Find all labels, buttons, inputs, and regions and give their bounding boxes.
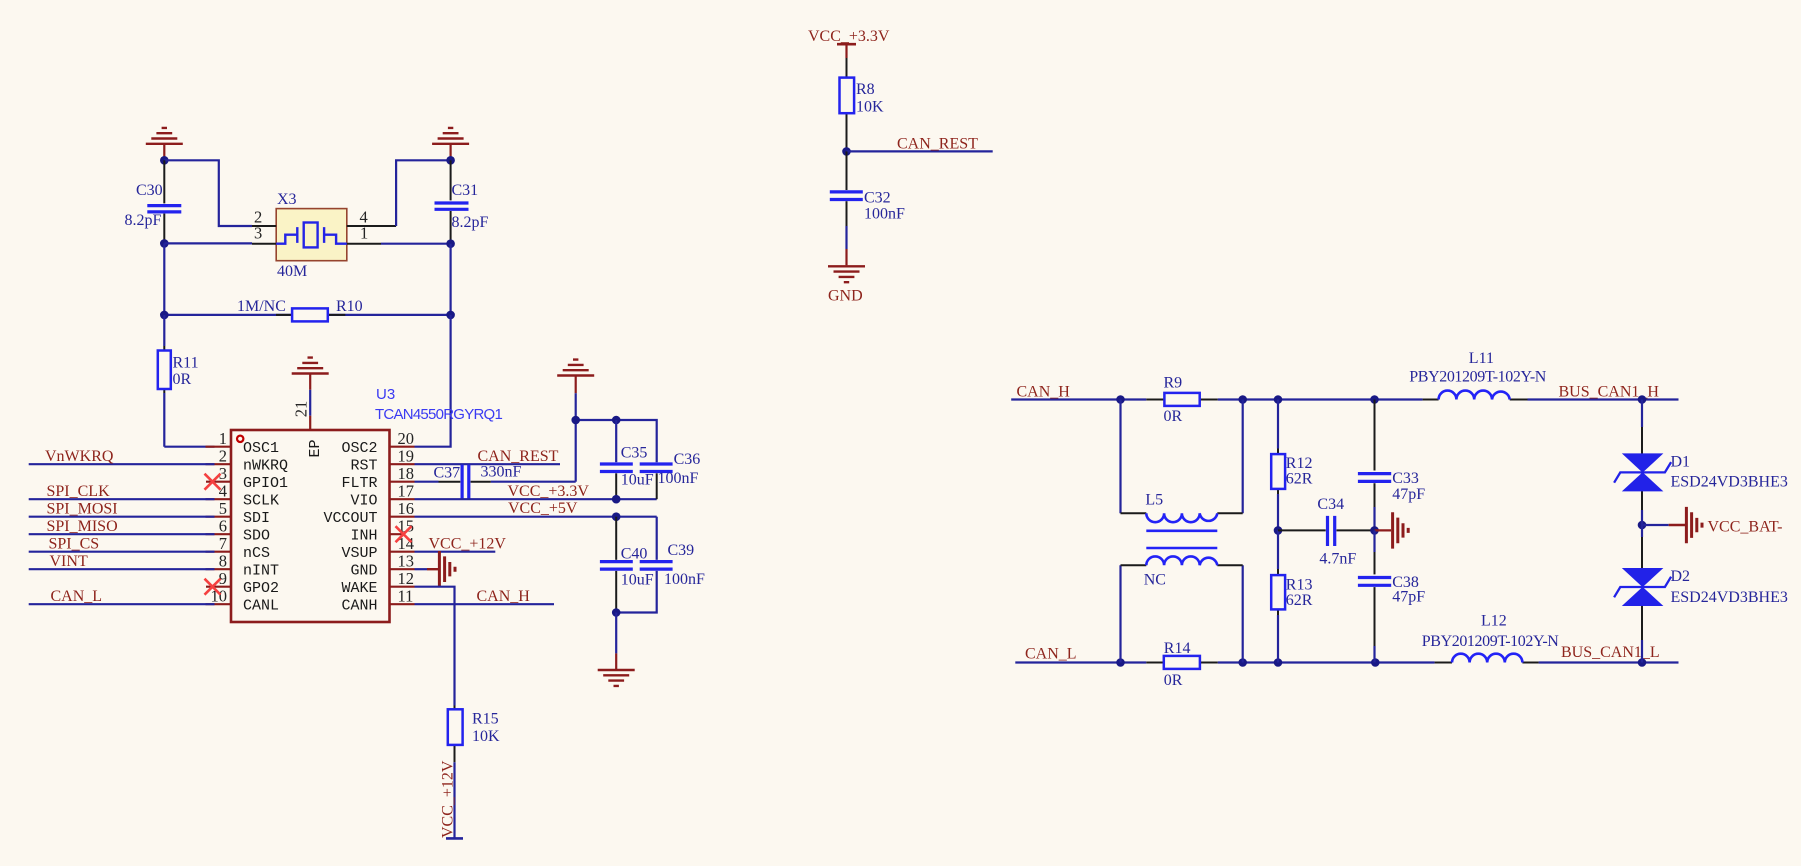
svg-text:C30: C30 <box>136 182 163 199</box>
svg-text:C35: C35 <box>621 445 648 462</box>
svg-text:GND: GND <box>350 563 377 580</box>
wire gnd to crystal pin2 <box>164 160 252 226</box>
node <box>571 416 580 425</box>
crystal X3 <box>252 191 396 280</box>
svg-text:GPIO1: GPIO1 <box>243 475 288 492</box>
SEC-IC <box>557 360 705 686</box>
svg-text:VINT: VINT <box>50 553 88 570</box>
svg-text:VCC_+3.3V: VCC_+3.3V <box>808 28 890 45</box>
node (R10 right) <box>446 311 455 320</box>
capacitor C34 <box>1278 496 1375 568</box>
svg-text:13: 13 <box>398 552 415 571</box>
svg-text:SCLK: SCLK <box>243 493 279 510</box>
svg-text:SDO: SDO <box>243 528 270 545</box>
svg-text:R9: R9 <box>1164 375 1183 392</box>
svg-text:3: 3 <box>254 224 262 243</box>
capacitor C32 <box>830 151 905 226</box>
svg-text:CAN_H: CAN_H <box>1017 383 1071 400</box>
svg-text:R8: R8 <box>856 81 875 98</box>
svg-text:10K: 10K <box>856 99 884 116</box>
svg-text:0R: 0R <box>173 371 192 388</box>
svg-text:R12: R12 <box>1286 455 1313 472</box>
svg-text:ESD24VD3BHE3: ESD24VD3BHE3 <box>1671 474 1788 491</box>
node <box>1274 658 1283 667</box>
svg-text:nWKRQ: nWKRQ <box>243 458 288 475</box>
svg-text:R14: R14 <box>1164 640 1191 657</box>
svg-text:C33: C33 <box>1392 470 1419 487</box>
svg-text:CAN_REST: CAN_REST <box>897 136 978 153</box>
node (R12/R13/C34) <box>1274 526 1283 535</box>
wire CAN_L <box>29 588 215 605</box>
svg-text:VCC_+12V: VCC_+12V <box>440 760 457 838</box>
svg-text:L12: L12 <box>1481 613 1507 630</box>
svg-text:47pF: 47pF <box>1392 486 1425 503</box>
svg-text:C39: C39 <box>668 542 695 559</box>
svg-text:100nF: 100nF <box>658 470 699 487</box>
wire SPI_CLK <box>29 483 215 500</box>
node (C30 top) <box>160 156 169 165</box>
svg-text:8.2pF: 8.2pF <box>125 212 162 229</box>
wire RST / CAN_REST <box>415 448 561 465</box>
svg-text:CAN_L: CAN_L <box>51 588 103 605</box>
pin stubs right 11-20 <box>390 447 415 605</box>
svg-text:SDI: SDI <box>243 510 270 527</box>
svg-text:C31: C31 <box>452 182 479 199</box>
diode D2 (TVS) <box>1614 525 1788 663</box>
inductor L11 <box>1409 350 1546 400</box>
wire gnd rail (top of C35/C36) <box>576 420 657 462</box>
inductor L12 <box>1422 613 1559 663</box>
svg-text:10: 10 <box>211 587 228 606</box>
svg-text:62R: 62R <box>1286 592 1313 609</box>
capacitor C36 <box>640 451 701 499</box>
svg-text:C36: C36 <box>674 451 701 468</box>
no-connect X pin3 <box>205 474 221 490</box>
node (C33/C34/C38/gnd) <box>1370 526 1379 535</box>
power port VCC_BAT- (side style) <box>1642 507 1782 543</box>
svg-text:47pF: 47pF <box>1392 589 1425 606</box>
wire CAN_H rail <box>1011 383 1678 400</box>
svg-text:GND: GND <box>828 288 863 305</box>
svg-text:ESD24VD3BHE3: ESD24VD3BHE3 <box>1671 589 1788 606</box>
resistor R9 <box>1146 375 1217 426</box>
no-connect X pin9 <box>205 579 221 595</box>
ground (right of crystal) <box>432 128 469 157</box>
svg-text:19: 19 <box>398 447 415 466</box>
no-connect X pin15 <box>396 526 412 542</box>
capacitor C33 <box>1358 400 1425 531</box>
node <box>1116 395 1125 404</box>
wire CANH / CAN_H <box>415 588 555 605</box>
svg-text:CAN_L: CAN_L <box>1025 646 1077 663</box>
svg-text:R10: R10 <box>336 298 363 315</box>
node <box>1238 658 1247 667</box>
svg-text:GPO2: GPO2 <box>243 580 279 597</box>
wire VSUP / VCC_+12V <box>415 536 507 553</box>
node (C30 bottom / pin3) <box>160 239 169 248</box>
svg-text:SPI_CS: SPI_CS <box>49 536 100 553</box>
ground (pin13 GND, side style) <box>415 551 456 587</box>
wire CAN_REST <box>847 136 993 153</box>
SEC-XTAL <box>29 358 657 839</box>
wire CAN_L rail <box>1015 646 1678 663</box>
svg-text:7: 7 <box>219 534 227 553</box>
svg-text:D1: D1 <box>1671 454 1691 471</box>
svg-text:PBY201209T-102Y-N: PBY201209T-102Y-N <box>1422 633 1559 650</box>
wire VINT <box>29 553 215 570</box>
ground (side style, right of C33) <box>1375 512 1409 548</box>
node <box>1370 395 1379 404</box>
svg-text:R11: R11 <box>173 355 199 372</box>
svg-text:17: 17 <box>398 482 415 501</box>
SEC-CAPS <box>1011 350 1788 689</box>
pin stubs left 1-10 <box>206 447 232 605</box>
svg-text:VCC_+5V: VCC_+5V <box>508 500 578 517</box>
svg-text:10uF: 10uF <box>621 472 654 489</box>
node <box>1274 395 1283 404</box>
ground (left of crystal) <box>146 128 183 157</box>
svg-text:1: 1 <box>360 224 368 243</box>
svg-text:nCS: nCS <box>243 545 270 562</box>
svg-text:RST: RST <box>350 458 377 475</box>
svg-text:VCC_+3.3V: VCC_+3.3V <box>508 483 590 500</box>
svg-text:40M: 40M <box>277 263 307 280</box>
svg-text:BUS_CAN1_L: BUS_CAN1_L <box>1561 644 1660 661</box>
svg-text:VCC_+12V: VCC_+12V <box>429 536 507 553</box>
ground GND <box>828 249 865 305</box>
capacitor C31 <box>435 160 489 243</box>
svg-text:nINT: nINT <box>243 563 279 580</box>
wire FLTR riser <box>575 420 577 482</box>
node CAN_REST junction <box>842 147 851 156</box>
wire SPI_CS <box>29 536 215 553</box>
wire pin3 <box>164 242 252 244</box>
node (C31 top) <box>446 156 455 165</box>
node (C31 bottom / pin1) <box>446 239 455 248</box>
ground (EP pin 21) <box>292 358 329 416</box>
svg-text:CAN_REST: CAN_REST <box>478 448 559 465</box>
wire to bottom ground <box>615 613 617 654</box>
resistor R14 <box>1146 640 1217 689</box>
pin 21 EP <box>292 401 324 458</box>
resistor R13 <box>1271 530 1313 662</box>
svg-text:4: 4 <box>219 482 227 501</box>
svg-text:8: 8 <box>219 552 227 571</box>
svg-text:VnWKRQ: VnWKRQ <box>45 448 114 465</box>
SEC-TOP <box>125 128 489 447</box>
svg-text:FLTR: FLTR <box>341 475 377 492</box>
svg-text:C32: C32 <box>864 190 891 207</box>
svg-text:EP: EP <box>307 439 324 457</box>
svg-text:VCCOUT: VCCOUT <box>323 510 377 527</box>
resistor R15 <box>448 706 500 763</box>
capacitor C38 <box>1358 530 1425 662</box>
node (between D1/D2) <box>1638 521 1647 530</box>
svg-text:5: 5 <box>219 499 227 518</box>
pin names right <box>323 440 377 615</box>
wire R11 to IC pin1 <box>164 446 214 448</box>
svg-text:12: 12 <box>398 569 415 588</box>
capacitor C40 <box>600 517 657 613</box>
svg-text:CAN_H: CAN_H <box>477 588 531 605</box>
wire OSC2 riser <box>415 315 451 447</box>
svg-text:VSUP: VSUP <box>341 545 377 562</box>
svg-text:10K: 10K <box>472 728 500 745</box>
wire crystal pin4 up to right gnd <box>381 160 451 243</box>
svg-text:11: 11 <box>398 587 414 606</box>
svg-text:R13: R13 <box>1286 577 1313 594</box>
node (VCCOUT rail) <box>612 512 621 521</box>
svg-text:R15: R15 <box>472 711 499 728</box>
svg-text:INH: INH <box>350 528 377 545</box>
svg-text:OSC2: OSC2 <box>341 440 377 457</box>
node <box>1116 658 1125 667</box>
node (D2 bottom) <box>1638 658 1647 667</box>
svg-text:TCAN4550RGYRQ1: TCAN4550RGYRQ1 <box>375 406 502 423</box>
svg-text:CANL: CANL <box>243 598 279 615</box>
svg-text:WAKE: WAKE <box>341 580 377 597</box>
capacitor C30 <box>125 160 182 243</box>
pin numbers left <box>211 429 228 606</box>
svg-text:330nF: 330nF <box>481 464 522 481</box>
ground (above C35) <box>557 360 594 420</box>
svg-text:SPI_CLK: SPI_CLK <box>47 483 111 500</box>
svg-text:21: 21 <box>292 401 311 418</box>
svg-text:C34: C34 <box>1317 496 1344 513</box>
svg-text:L11: L11 <box>1469 350 1494 367</box>
svg-text:4.7nF: 4.7nF <box>1319 551 1356 568</box>
svg-text:10uF: 10uF <box>621 572 654 589</box>
svg-text:1: 1 <box>219 429 227 448</box>
wire WAKE down to R15 <box>415 587 455 706</box>
svg-text:8.2pF: 8.2pF <box>452 214 489 231</box>
svg-text:X3: X3 <box>277 191 297 208</box>
svg-text:100nF: 100nF <box>664 571 705 588</box>
node <box>1238 395 1247 404</box>
resistor R11 <box>158 315 199 447</box>
wire to GND <box>845 226 847 249</box>
capacitor C35 <box>600 420 654 499</box>
svg-text:VIO: VIO <box>350 493 377 510</box>
svg-text:6: 6 <box>219 517 227 536</box>
svg-text:20: 20 <box>398 429 415 448</box>
node <box>1371 658 1380 667</box>
svg-text:SPI_MISO: SPI_MISO <box>47 518 118 535</box>
ic U3 body <box>231 386 502 622</box>
svg-text:D2: D2 <box>1671 568 1691 585</box>
wire SPI_MOSI <box>29 501 215 518</box>
svg-text:18: 18 <box>398 464 415 483</box>
svg-text:0R: 0R <box>1164 408 1183 425</box>
capacitor C37 (FLTR) <box>415 464 576 500</box>
wire VCCOUT / VCC_+5V <box>415 500 657 517</box>
power port VCC_+3.3V <box>808 28 890 58</box>
ground (below C40) <box>598 653 635 686</box>
node (C35 bottom on 3.3V rail) <box>612 495 621 504</box>
node <box>612 416 621 425</box>
svg-text:62R: 62R <box>1286 471 1313 488</box>
svg-text:0R: 0R <box>1164 672 1183 689</box>
wire VIO / VCC_+3.3V <box>415 483 657 500</box>
svg-text:C37: C37 <box>434 465 461 482</box>
wire SPI_MISO <box>29 518 215 535</box>
wire VnWKRQ <box>29 448 215 465</box>
svg-text:SPI_MOSI: SPI_MOSI <box>47 501 118 518</box>
wire C30 down to R10 row <box>163 243 165 315</box>
svg-text:CANH: CANH <box>341 598 377 615</box>
resistor R8 <box>840 58 885 148</box>
svg-text:U3: U3 <box>376 386 395 403</box>
svg-text:2: 2 <box>219 447 227 466</box>
svg-text:C40: C40 <box>621 546 648 563</box>
diode D1 (TVS) <box>1614 400 1788 511</box>
resistor R12 <box>1271 400 1313 531</box>
node (D1 top) <box>1638 395 1647 404</box>
svg-text:VCC_BAT-: VCC_BAT- <box>1708 519 1783 536</box>
capacitor C39 <box>620 542 705 613</box>
svg-text:OSC1: OSC1 <box>243 440 279 457</box>
svg-text:PBY201209T-102Y-N: PBY201209T-102Y-N <box>1409 369 1546 386</box>
svg-text:100nF: 100nF <box>864 206 905 223</box>
power port VCC_+12V (bottom, rotated) <box>440 760 464 838</box>
resistor R10 <box>164 298 450 321</box>
inductor L5 (common mode choke) <box>1121 400 1243 663</box>
svg-text:L5: L5 <box>1145 492 1163 509</box>
node (C40 bottom) <box>612 608 621 617</box>
wire C31 down to R10 row <box>450 244 452 315</box>
svg-text:1M/NC: 1M/NC <box>237 298 286 315</box>
pin numbers right <box>398 429 415 606</box>
svg-text:NC: NC <box>1144 571 1166 588</box>
node (R10 left) <box>160 311 169 320</box>
pin names left <box>243 440 288 615</box>
svg-text:16: 16 <box>398 499 415 518</box>
